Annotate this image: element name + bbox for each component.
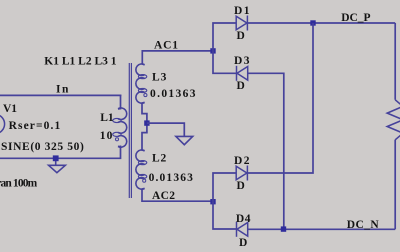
voltage source V1 circle (0, 114, 5, 133)
node center-tap junction (144, 120, 149, 125)
phase dot L2 (143, 179, 146, 182)
node junction AC2 (210, 199, 215, 204)
svg-text:L2: L2 (152, 153, 167, 165)
diode D3 (237, 66, 248, 81)
wire AC2 junction to D4 (213, 201, 237, 229)
svg-text:D4: D4 (236, 213, 251, 225)
node junction at V1 ground (53, 155, 59, 161)
svg-text:.tran 100m: .tran 100m (0, 178, 38, 190)
svg-text:DC_P: DC_P (341, 12, 370, 24)
wire right rail top (DC_P down to load) (394, 23, 396, 100)
diode D1 (236, 16, 247, 31)
svg-text:D2: D2 (234, 155, 251, 167)
svg-text:L3: L3 (152, 71, 167, 83)
svg-text:D: D (237, 30, 245, 42)
svg-text:D: D (239, 237, 247, 249)
wire right rail bottom (load to DC_N) (394, 140, 396, 230)
node junction DC_P (310, 20, 315, 25)
wire In net (V1 top to primary top) (0, 94, 121, 96)
svg-text:V1: V1 (3, 103, 17, 115)
phase dot L1 (115, 138, 118, 141)
svg-text:D: D (237, 80, 245, 92)
wire DC_P rail (247, 22, 395, 24)
svg-text:0.01363: 0.01363 (149, 172, 194, 184)
wire D2 cathode up to DC_P junction (247, 23, 313, 173)
wire AC1 junction to D1 (213, 23, 236, 51)
svg-text:AC2: AC2 (152, 190, 175, 202)
wire center tap jog (142, 102, 147, 150)
diode D2 (236, 166, 247, 181)
svg-text:0.01363: 0.01363 (150, 88, 197, 100)
ground (V1 bottom) (49, 161, 66, 173)
svg-text:D3: D3 (234, 55, 251, 67)
svg-text:DC_N: DC_N (347, 219, 380, 231)
wire primary top lead (120, 95, 122, 108)
svg-text:SINE(0 325 50): SINE(0 325 50) (1, 141, 84, 153)
ground (secondary center tap) (176, 136, 193, 144)
node junction DC_N (281, 226, 286, 231)
wire AC1 junction to D3 (213, 51, 237, 73)
wire center tap to ground (147, 123, 184, 136)
diode D4 (237, 222, 248, 237)
wire AC2 net (L2 bottom to bridge) (142, 188, 213, 201)
inductor L2 (secondary bottom winding) (136, 149, 147, 190)
wire D3 anode to DC_N (248, 73, 284, 229)
svg-text:D: D (237, 180, 245, 192)
svg-text:Rser=0.1: Rser=0.1 (9, 120, 62, 132)
resistor R load (387, 100, 400, 140)
wire AC2 junction to D2 (213, 173, 236, 201)
svg-text:L1: L1 (100, 112, 114, 124)
svg-text:D1: D1 (234, 5, 251, 17)
inductor L3 (secondary top winding) (136, 63, 147, 104)
svg-text:K1 L1 L2 L3 1: K1 L1 L2 L3 1 (44, 55, 116, 67)
node junction AC1 (210, 48, 215, 53)
svg-text:In: In (56, 84, 70, 96)
wire AC1 net (L3 top to bridge) (142, 51, 213, 65)
wire primary bottom return to V1 (0, 146, 121, 158)
inductor L1 (primary winding) (113, 107, 127, 147)
phase dot L3 (144, 94, 147, 97)
transformer core (129, 63, 131, 198)
wire DC_N rail (248, 228, 396, 230)
svg-text:AC1: AC1 (154, 40, 179, 52)
svg-text:10: 10 (100, 130, 114, 142)
